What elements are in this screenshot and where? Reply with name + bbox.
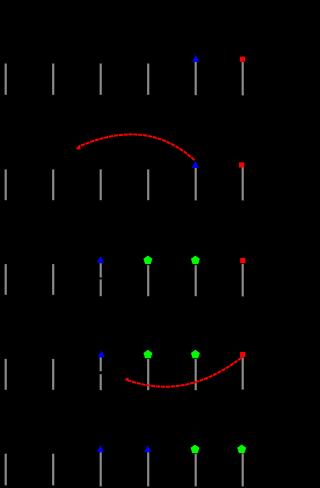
green pentagon row4 col4 <box>143 350 152 359</box>
pin row3 col5 <box>195 265 197 296</box>
green pentagon row5 col5 <box>191 445 200 454</box>
pin row5 col6 <box>242 453 244 486</box>
pin row1 col5 <box>195 62 197 95</box>
pin row4 col6 <box>242 358 244 390</box>
pin row1 col1 <box>5 64 7 95</box>
pin row5 col5 <box>195 454 197 487</box>
pin row2 col6 <box>242 167 244 200</box>
green pentagon row3 col5 <box>191 256 200 265</box>
pin row4 col1 <box>5 359 7 390</box>
pin row4 col2 <box>52 359 54 390</box>
pin row1 col2 <box>52 64 54 95</box>
green pentagon row4 col5 <box>191 350 200 359</box>
dashed red arc arrow row2 from col5 triangle to between col2 and col3 <box>79 134 195 160</box>
pin row4 col3 upper <box>100 357 102 371</box>
green pentagon row3 col4 <box>143 256 152 265</box>
blue triangle row1 col5 <box>192 55 199 62</box>
pin row1 col3 <box>100 64 102 95</box>
pin row3 col3 upper <box>100 263 102 277</box>
pin row3 col2 <box>52 264 54 295</box>
pin row5 col2 <box>52 454 54 486</box>
dashed red arc arrow row4 from col6 square to between col3 and col4 <box>128 358 242 387</box>
green pentagon row5 col6 <box>237 445 246 454</box>
blue triangle row3 col3 <box>97 256 104 263</box>
pin row3 col4 <box>147 265 149 296</box>
blue triangle row5 col4 <box>144 445 151 452</box>
red square row2 col6 <box>239 162 244 167</box>
pin row4 col5 <box>195 359 197 390</box>
arrowhead row2 arc <box>76 145 81 149</box>
pin row3 col1 <box>5 264 7 295</box>
blue triangle row2 col5 <box>192 161 199 168</box>
pin row4 col3 lower <box>100 374 102 390</box>
pin row2 col1 <box>5 169 7 200</box>
pin row2 col5 <box>195 168 197 201</box>
pin row2 col4 <box>147 169 149 200</box>
pin row5 col1 <box>5 454 7 486</box>
pin row5 col4 <box>147 452 149 486</box>
red square row3 col6 <box>240 258 245 263</box>
red square row1 col6 <box>240 57 245 62</box>
pin row4 col4 <box>147 359 149 390</box>
pin row5 col3 <box>100 452 102 486</box>
pin row1 col6 <box>242 62 244 95</box>
blue triangle row5 col3 <box>97 445 104 452</box>
arrowhead row4 arc <box>125 377 129 382</box>
pin row3 col6 <box>242 264 244 297</box>
pin row3 col3 lower <box>100 279 102 296</box>
pin row2 col3 <box>100 169 102 200</box>
red square row4 col6 <box>240 352 245 357</box>
blue triangle row4 col3 <box>98 350 105 357</box>
pin row2 col2 <box>52 169 54 200</box>
pin row1 col4 <box>147 64 149 95</box>
